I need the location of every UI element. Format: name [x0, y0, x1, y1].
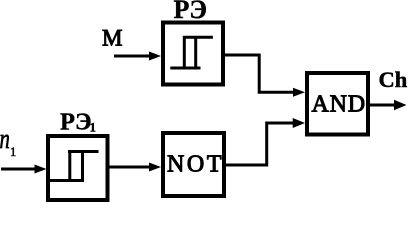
svg-text:1: 1	[90, 120, 97, 135]
svg-text:NOT: NOT	[167, 152, 224, 178]
svg-text:AND: AND	[312, 92, 366, 118]
svg-text:n: n	[0, 124, 10, 155]
svg-text:РЭ: РЭ	[60, 109, 92, 136]
svg-text:РЭ: РЭ	[174, 0, 208, 24]
svg-text:M: M	[102, 26, 122, 51]
svg-text:Ch: Ch	[379, 67, 408, 92]
svg-text:1: 1	[10, 145, 16, 159]
